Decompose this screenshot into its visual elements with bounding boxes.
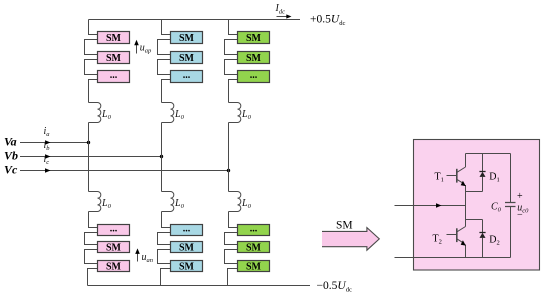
wire phase b upper arm chain <box>158 20 171 103</box>
wire phase c lower arm chain <box>225 212 238 286</box>
inductor L0 phase c upper <box>229 103 241 123</box>
svg-text:SM: SM <box>246 261 262 272</box>
submodule SM box phase b upper 1 <box>171 32 203 44</box>
wire phase c leg mid vertical <box>228 123 230 192</box>
svg-text:SM: SM <box>179 242 195 253</box>
svg-text:SM: SM <box>179 33 195 44</box>
inductor L0 phase b lower <box>162 192 174 212</box>
capacitor C0 <box>505 154 516 258</box>
svg-text:...: ... <box>250 223 258 234</box>
wire phase c upper arm chain <box>225 20 238 103</box>
submodule SM box phase c lower 3 <box>238 261 270 273</box>
svg-text:SM: SM <box>179 53 195 64</box>
wire SM inner top rail <box>466 153 511 155</box>
inductor L0 phase c lower <box>229 192 241 212</box>
wire phase a upper arm chain <box>85 20 98 103</box>
wire phase b line <box>20 154 162 158</box>
transistor T2 IGBT <box>447 220 466 258</box>
svg-text:...: ... <box>183 223 191 234</box>
diode D1 <box>479 154 485 192</box>
wire SM input line mid <box>395 203 466 207</box>
wire phase a line <box>20 140 89 144</box>
submodule SM box phase a lower 3 <box>98 261 130 273</box>
submodule SM box phase c upper 2 <box>238 52 270 64</box>
wire T1 D1 bottom link <box>466 191 483 193</box>
svg-text:...: ... <box>110 223 118 234</box>
svg-text:SM: SM <box>246 33 262 44</box>
submodule detail box background <box>414 140 540 271</box>
wire phase c line <box>20 168 229 172</box>
submodule SM box phase b lower 1 <box>171 223 203 235</box>
node phase c junction <box>227 169 230 172</box>
svg-text:SM: SM <box>246 242 262 253</box>
wire phase a leg mid vertical <box>88 123 90 192</box>
wire SM inner bottom rail <box>395 257 511 259</box>
svg-text:...: ... <box>250 70 258 81</box>
submodule SM box phase c lower 1 <box>238 223 270 235</box>
transistor T1 IGBT <box>447 154 466 220</box>
svg-text:SM: SM <box>106 33 122 44</box>
svg-text:Vb: Vb <box>4 148 18 162</box>
diode D2 <box>479 220 485 258</box>
svg-text:Vc: Vc <box>4 162 18 176</box>
submodule SM box phase c upper 1 <box>238 32 270 44</box>
submodule SM box phase a upper 2 <box>98 52 130 64</box>
wire phase b lower arm chain <box>158 212 171 286</box>
svg-text:...: ... <box>183 70 191 81</box>
inductor L0 phase a lower <box>89 192 101 212</box>
submodule SM box phase a upper 1 <box>98 32 130 44</box>
svg-text:+: + <box>517 191 523 202</box>
submodule SM box phase c lower 2 <box>238 242 270 254</box>
submodule SM box phase a upper 3 <box>98 70 130 83</box>
wire T2 D2 top link <box>466 219 483 221</box>
svg-text:−: − <box>517 210 523 221</box>
wire top DC bus <box>89 19 301 21</box>
submodule SM box phase a lower 2 <box>98 242 130 254</box>
submodule SM box phase b lower 3 <box>171 261 203 273</box>
wire bottom DC bus <box>88 285 311 287</box>
svg-text:SM: SM <box>246 53 262 64</box>
svg-text:Va: Va <box>4 134 17 148</box>
current arrow I_dc <box>277 14 292 18</box>
node phase a junction <box>87 141 90 144</box>
svg-text:SM: SM <box>106 261 122 272</box>
svg-text:...: ... <box>110 70 118 81</box>
svg-text:SM: SM <box>336 220 353 232</box>
svg-text:SM: SM <box>106 242 122 253</box>
inductor L0 phase a upper <box>89 103 101 123</box>
svg-text:SM: SM <box>179 261 195 272</box>
wire phase a lower arm chain <box>85 212 98 286</box>
submodule SM box phase b lower 2 <box>171 242 203 254</box>
svg-text:SM: SM <box>106 53 122 64</box>
inductor L0 phase b upper <box>162 103 174 123</box>
submodule SM box phase c upper 3 <box>238 70 270 83</box>
submodule SM box phase a lower 1 <box>98 223 130 235</box>
arrow u_ap upper arm voltage <box>134 40 139 54</box>
submodule SM box phase b upper 3 <box>171 70 203 83</box>
node phase b junction <box>160 155 163 158</box>
arrow u_an lower arm voltage <box>135 248 140 261</box>
submodule SM box phase b upper 2 <box>171 52 203 64</box>
wire phase b leg mid vertical <box>161 123 163 192</box>
block arrow SM callout <box>322 228 379 251</box>
